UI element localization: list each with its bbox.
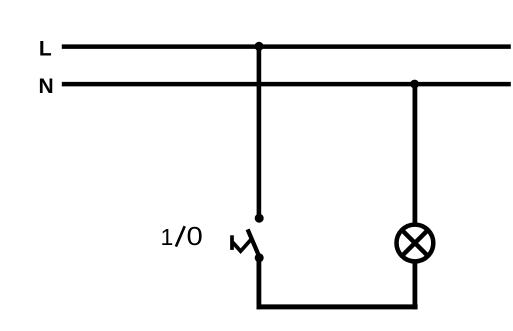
svg-text:N: N (39, 75, 54, 98)
wire: drop from N to lamp (412, 84, 417, 224)
wire: line N (neutral) horizontal (62, 82, 511, 87)
lamp E1 (circle with cross) (397, 225, 434, 262)
junction: tap on line L (255, 42, 264, 51)
switch S1 actuator bar (230, 235, 234, 250)
label 1/0 digit 0 (187, 221, 203, 250)
switch S1 top contact (255, 214, 264, 223)
wire: line L (live) horizontal (62, 44, 511, 49)
junction: tap on line N (410, 80, 419, 89)
net label N (39, 75, 54, 98)
label 1/0 digit 1 (161, 224, 174, 250)
wire: drop from L to switch (crosses N without junction) (257, 47, 262, 217)
net label L (39, 38, 52, 61)
switch S1 blade (248, 229, 260, 257)
label 1/0 slash (176, 226, 185, 246)
switch S1 bottom contact (255, 253, 264, 262)
svg-text:L: L (39, 38, 52, 61)
svg-text:0: 0 (187, 221, 203, 250)
svg-text:1: 1 (161, 224, 174, 250)
switch S1 actuator zigzag linkage (233, 240, 251, 252)
wire: switch bottom down to return run (256, 258, 261, 310)
wire: bottom return run (257, 304, 418, 309)
wire: lamp bottom to return run (412, 262, 417, 309)
